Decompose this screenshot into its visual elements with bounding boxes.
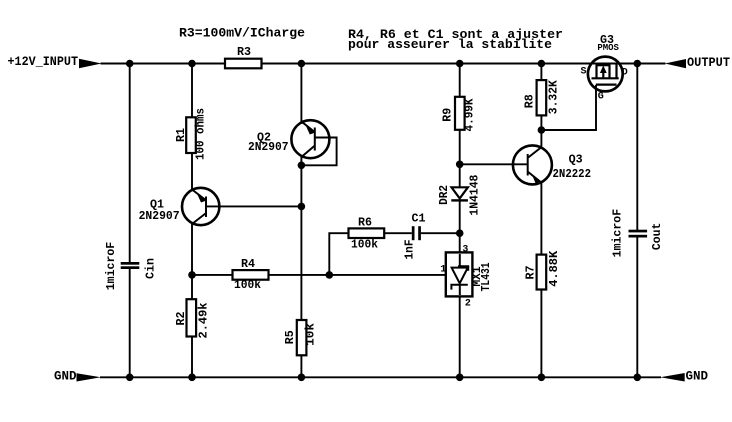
junction bottom rail at R2 [188,374,196,382]
svg-text:R1: R1 [174,128,188,142]
junction R4 left node [188,271,196,279]
port OUTPUT arrow [665,59,686,68]
svg-text:R9: R9 [441,108,455,122]
svg-text:4.88K: 4.88K [547,250,561,287]
svg-text:OUTPUT: OUTPUT [687,55,730,70]
wire Q1 collector down [191,224,193,276]
junction Q1 base node [298,203,306,211]
wire node to DR2 anode [459,164,461,188]
svg-text:R7: R7 [524,266,538,280]
wire R7 to ground [540,290,542,378]
wire bottom rail [100,376,661,378]
svg-text:100k: 100k [351,237,378,251]
svg-text:1microF: 1microF [610,209,624,258]
svg-text:PMOS: PMOS [597,43,619,53]
junction C1 TL431 cathode node [456,229,464,237]
port +12V_INPUT arrow [79,59,102,68]
svg-text:TL431: TL431 [479,262,493,291]
resistor R3 [225,59,262,69]
wire Q3 base [460,163,528,165]
capacitor Cout [629,230,648,238]
port GND left arrow [77,373,101,381]
svg-text:2: 2 [465,299,471,310]
resistor R4 [233,270,269,280]
svg-text:D: D [622,67,628,78]
svg-text:2N2907: 2N2907 [139,209,180,223]
junction output node [634,60,642,68]
svg-text:2.49k: 2.49k [197,303,211,339]
transistor Q1 [182,188,301,225]
svg-text:G: G [598,92,604,103]
junction bottom rail at Cin [126,374,134,382]
junction top rail at R9 [456,60,464,68]
resistor R6 [349,228,385,238]
svg-text:4.99K: 4.99K [463,98,477,132]
capacitor Cin [121,262,140,269]
junction Q3 base node [456,161,464,169]
svg-text:C1: C1 [412,212,426,226]
wire R8 to gate node [540,115,542,146]
resistor R5 [297,320,307,355]
junction feedback node [326,271,334,279]
resistor R1 [186,117,196,153]
junction bottom rail at Cout [634,374,642,382]
op-amp U1 TL431 internal symbol [451,254,468,295]
svg-text:DR2: DR2 [437,185,451,205]
junction top rail at Q2 [298,60,306,68]
junction bottom rail at R7 [538,374,546,382]
svg-text:R4: R4 [241,257,255,271]
junction top rail at Cin [126,60,134,68]
wire Cin branch lower [129,268,131,377]
transistor Q3 [513,145,552,185]
wire gate node to G3 gate [541,85,596,130]
svg-text:100 ohms: 100 ohms [194,108,208,160]
wire Cout to ground [636,237,638,378]
port GND right arrow [660,373,684,382]
wire R6 to C1 [384,232,412,234]
wire top rail [101,63,638,65]
wire rail to R1 [191,63,193,118]
wire R6 branch up [329,233,348,275]
capacitor C1 [412,226,421,240]
resistor R7 [537,255,547,290]
svg-text:2N2907: 2N2907 [248,140,289,154]
svg-text:1N4148: 1N4148 [467,175,481,216]
svg-text:S: S [581,66,587,77]
resistor R9 [455,97,465,130]
diode DR2 [451,187,468,201]
svg-text:R8: R8 [522,94,536,108]
wire DR2 cathode to C1 node [459,201,461,253]
svg-text:2N2222: 2N2222 [553,167,592,181]
svg-text:Cin: Cin [144,258,158,279]
junction top rail at R1 [188,60,196,68]
junction gate node [538,126,546,134]
junction top rail at R8 [538,60,546,68]
wire R4 to TL431 ref [269,274,446,276]
svg-text:R3: R3 [237,45,251,59]
svg-text:+12V_INPUT: +12V_INPUT [8,54,79,69]
svg-text:Q3: Q3 [569,153,583,167]
svg-text:GND: GND [686,369,709,384]
wire rail to R9 [459,63,461,98]
op-amp U1 TL431 box [446,252,473,296]
wire Cin branch upper [129,63,131,264]
svg-text:1: 1 [440,265,446,276]
svg-text:10k: 10k [304,323,318,346]
transistor G3 PMOS [588,57,623,92]
wire R4 feedback left [192,274,233,276]
transistor Q2 [291,120,329,158]
wire Q2 base tie loop [301,138,336,166]
wire node to R2 [191,275,193,300]
wire Q3 emitter to R7 [540,183,542,255]
svg-text:R5: R5 [283,330,297,344]
junction bottom rail at TL431 [456,374,464,382]
svg-text:Cout: Cout [650,223,664,251]
wire rail to Q2 emitter [300,63,302,125]
wire R2 to ground [191,337,193,378]
junction Q2 base-collector tie [298,162,306,170]
resistor R8 [537,80,547,115]
resistor R2 [187,299,197,336]
svg-text:pour asseurer la stabilite: pour asseurer la stabilite [348,37,552,52]
wire drain to output [637,63,665,65]
svg-text:3: 3 [462,245,468,256]
wire Q2 collector down [300,157,302,321]
svg-text:R2: R2 [174,312,188,326]
junction bottom rail at R5 [298,374,306,382]
wire rail to R8 [540,63,542,81]
wire TL431 anode to ground [459,296,461,377]
svg-text:1microF: 1microF [104,242,118,291]
svg-text:3.32K: 3.32K [547,79,561,114]
wire output to Cout [636,64,638,232]
wire R5 to ground [300,355,302,377]
wire R1 to Q1 emitter [191,153,193,190]
svg-text:GND: GND [54,369,77,384]
wire rail between R3 [224,63,226,65]
svg-text:R3=100mV/ICharge: R3=100mV/ICharge [179,26,305,41]
svg-text:1nF: 1nF [403,240,417,260]
svg-text:R6: R6 [358,215,372,229]
wire R9 to Q3 base node [459,130,461,165]
svg-text:100k: 100k [234,278,261,292]
wire C1 to cathode node [421,232,460,234]
